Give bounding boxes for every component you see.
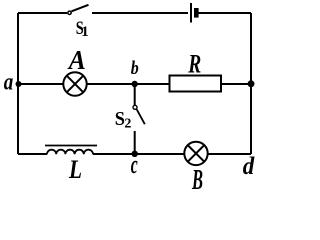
svg-text:A: A — [67, 45, 86, 75]
svg-text:R: R — [187, 50, 201, 79]
svg-text:d: d — [243, 153, 255, 180]
svg-text:1: 1 — [81, 24, 89, 40]
svg-text:b: b — [131, 58, 139, 79]
svg-text:c: c — [131, 150, 138, 179]
svg-text:B: B — [191, 165, 203, 189]
svg-text:a: a — [4, 69, 14, 95]
svg-text:L: L — [68, 155, 82, 184]
svg-text:2: 2 — [124, 116, 131, 131]
